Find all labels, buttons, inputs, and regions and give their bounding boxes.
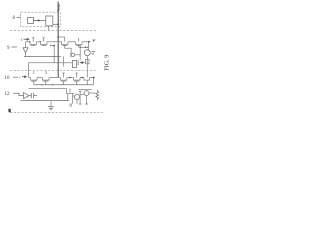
wire into source I1 <box>87 42 89 50</box>
label corner blob <box>8 109 10 112</box>
wire vertical bus <box>57 2 59 78</box>
arrowhead <box>38 19 40 21</box>
current source I1 <box>84 50 90 56</box>
wire U2 output <box>53 23 58 25</box>
label f2 arrow <box>22 76 26 78</box>
transistor Q2 <box>41 38 48 46</box>
wire lead 9 <box>12 46 18 48</box>
inverter bubble B1 <box>70 52 72 57</box>
wire mid left drop <box>28 63 30 78</box>
svg-text:1: 1 <box>33 70 35 75</box>
wire dashed divider mid <box>10 70 97 72</box>
wire I1 down <box>86 56 88 78</box>
dashed block 8 box <box>21 12 61 27</box>
svg-text:f: f <box>21 37 23 42</box>
node junction dot <box>57 36 59 38</box>
wire lead 12 <box>13 93 24 95</box>
ground bars <box>79 103 88 105</box>
wire branch from bus <box>58 36 64 38</box>
transistor Q4 <box>76 38 83 48</box>
crystal X1 <box>29 93 37 98</box>
wire ground stub <box>50 101 52 107</box>
transistor Q5 <box>31 78 38 85</box>
svg-text:12: 12 <box>5 92 11 97</box>
wire band3 lower rail <box>34 84 94 86</box>
wire U2 down stub <box>48 26 50 31</box>
svg-text:3: 3 <box>45 70 47 75</box>
wire mid horizontal <box>29 62 73 64</box>
diode D1 triangle <box>23 48 28 53</box>
svg-text:f: f <box>19 76 21 80</box>
wire corner to cluster <box>67 89 75 94</box>
wire lead 8 <box>17 16 21 18</box>
wire band2 bottom rail <box>24 56 61 58</box>
wire diode to rail <box>25 53 27 57</box>
transistor Q1 <box>30 38 37 46</box>
transistor Q10 circle <box>84 91 89 96</box>
wire Q10 verticals <box>80 90 86 104</box>
wire Q9 top <box>76 94 78 104</box>
wire f arrow <box>24 38 29 40</box>
transistor Q3 <box>62 37 69 48</box>
wire lead 10 <box>13 76 18 78</box>
wire Q3 drain path <box>65 48 72 52</box>
wire into U2 <box>41 19 46 21</box>
wire to resistor <box>89 92 96 94</box>
ground G1 <box>48 107 54 110</box>
component tick box <box>86 60 89 64</box>
flip-flop U2 <box>46 16 53 26</box>
wire arrow into U3 <box>81 62 85 64</box>
wire right tick label <box>93 40 96 42</box>
node band3 dots <box>69 77 71 79</box>
transistor Q7 <box>60 73 67 85</box>
svg-text:10: 10 <box>5 76 11 81</box>
component box U3 <box>73 60 77 67</box>
svg-text:8: 8 <box>13 16 16 21</box>
resistor R1 <box>96 90 99 101</box>
node output dot <box>57 23 59 25</box>
wire link rails <box>63 57 65 67</box>
wire right cluster feed <box>79 89 92 91</box>
wire riser to bottom rail <box>67 94 69 101</box>
wire Q9 left leg <box>73 94 75 104</box>
transistor Q8b <box>84 78 90 85</box>
wire left drop to diode <box>25 42 27 48</box>
svg-text:9: 9 <box>7 46 10 51</box>
pin bar <box>77 61 79 66</box>
label I1 ticks <box>92 52 96 54</box>
node rail dots <box>29 41 30 42</box>
transistor Q8 <box>74 73 81 85</box>
transistor Q9 circle <box>74 94 79 99</box>
wire bottom rail <box>21 100 70 102</box>
wire gate link with arrows <box>80 46 88 48</box>
wire arrow from U1 <box>34 19 40 21</box>
svg-text:FIG. 9: FIG. 9 <box>103 55 110 71</box>
amplifier A1 triangle <box>24 93 30 99</box>
wire band3 right drop <box>93 78 95 85</box>
wire dashed divider top <box>10 30 97 32</box>
wire Q10 top bar <box>79 90 82 92</box>
oscillator box U1 <box>28 18 34 24</box>
wire stub x70 <box>69 89 71 93</box>
wire band2 top rail <box>26 41 90 43</box>
wire bubble to right <box>75 54 81 56</box>
wire dashed divider bottom <box>10 112 103 114</box>
transistor Q6 <box>43 78 50 85</box>
wire Q4 drop <box>79 47 81 60</box>
wire Q2 drain drop <box>50 44 54 62</box>
svg-text:24: 24 <box>69 103 73 107</box>
wire band3 second rail <box>29 88 67 90</box>
wire band3 rail <box>29 77 96 79</box>
